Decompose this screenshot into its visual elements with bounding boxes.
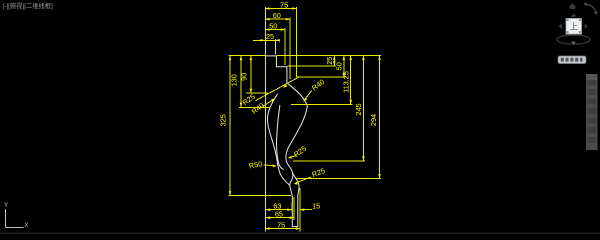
UCS icon bbox=[6, 209, 24, 228]
ext 50R bottom bbox=[297, 76, 346, 78]
25 arrows flipped outside bbox=[260, 39, 265, 42]
ext 294 bottom bbox=[295, 178, 381, 180]
right neck curve R25 upper bbox=[286, 146, 293, 174]
step face 2 bbox=[276, 66, 287, 68]
svg-text:[-][俯视][二维线框]: [-][俯视][二维线框] bbox=[3, 1, 54, 10]
dim line 113.25 bbox=[350, 56, 352, 105]
dim line 50 bbox=[265, 29, 285, 31]
step vertical 1 bbox=[275, 56, 277, 67]
extension line 50 right bbox=[284, 28, 286, 65]
step vertical 2 bbox=[286, 67, 288, 83]
dim line 130 bbox=[240, 56, 242, 108]
svg-text:75: 75 bbox=[280, 0, 288, 9]
extension line left shared bbox=[264, 7, 266, 232]
home icon above viewcube bbox=[570, 3, 576, 9]
svg-text:294: 294 bbox=[369, 114, 378, 126]
viewcube face bbox=[566, 19, 582, 35]
leader arrow R25 left bbox=[283, 84, 288, 88]
svg-text:325: 325 bbox=[219, 114, 228, 126]
dim line 75 top bbox=[265, 8, 297, 10]
dim line 50 right bbox=[343, 56, 345, 78]
inner curve line bbox=[277, 106, 284, 170]
63 arrows bbox=[266, 208, 271, 211]
svg-text:130: 130 bbox=[230, 74, 239, 86]
svg-text:50: 50 bbox=[269, 21, 277, 30]
245 arrows bbox=[362, 56, 365, 61]
75 top arrows bbox=[265, 7, 270, 10]
dim line 245 bbox=[362, 56, 364, 161]
ext 113.25 bottom bbox=[291, 103, 352, 105]
svg-text:50: 50 bbox=[334, 62, 343, 70]
leader R25 left bbox=[256, 77, 300, 101]
svg-text:Y: Y bbox=[4, 202, 8, 209]
funnel left diagonal bbox=[290, 185, 293, 196]
funnel right branch bbox=[293, 174, 299, 197]
stem left edge bbox=[291, 196, 293, 227]
leader arrow R25 right upper bbox=[288, 156, 292, 159]
stem right edge bbox=[297, 196, 299, 227]
leader R25 right lower bbox=[295, 177, 311, 183]
bottom dim 65 bbox=[266, 217, 295, 219]
viewcube triangle left bbox=[559, 23, 562, 29]
ext 90 bottom bbox=[246, 92, 268, 94]
50R arrows bbox=[343, 56, 346, 61]
bottom window edge bbox=[0, 233, 600, 234]
svg-text:15: 15 bbox=[312, 201, 320, 210]
viewcube triangle top bbox=[571, 14, 577, 17]
extension line 60 right bbox=[289, 18, 291, 79]
ext 15/75 right bbox=[299, 188, 301, 232]
90 arrows bbox=[250, 56, 253, 61]
leader arrow R50 bbox=[273, 165, 277, 168]
right taper edge bbox=[289, 106, 307, 146]
top reference ext line right part bbox=[277, 55, 381, 57]
compass ellipse bbox=[557, 35, 590, 44]
60 arrows bbox=[265, 18, 270, 21]
viewcube triangle right bbox=[585, 24, 588, 29]
leader R40 left bbox=[263, 99, 274, 106]
dim line 325 bbox=[229, 56, 231, 196]
compass pointer bbox=[571, 42, 576, 45]
ext 65 right bbox=[293, 197, 295, 220]
leader arrow R25 right lower bbox=[294, 182, 298, 185]
left long S edge bbox=[267, 94, 289, 185]
ext 63 right bbox=[291, 202, 293, 212]
dim line 60 bbox=[265, 18, 290, 20]
ext 245 bottom bbox=[293, 160, 365, 162]
top face of part bbox=[266, 55, 277, 57]
ext 25R bottom bbox=[288, 65, 336, 67]
ext 325 bottom bbox=[228, 195, 291, 197]
right strip panel bbox=[586, 74, 598, 150]
325 arrows bbox=[229, 56, 232, 61]
leader R25 right upper bbox=[289, 156, 296, 158]
svg-text:245: 245 bbox=[354, 103, 363, 115]
dim line 25 bbox=[253, 39, 280, 41]
65 arrows bbox=[266, 216, 271, 219]
svg-text:X: X bbox=[24, 222, 28, 229]
dim line 25 right bbox=[333, 56, 335, 66]
ext 130 bottom bbox=[239, 106, 270, 108]
dim line 294 bbox=[379, 56, 381, 179]
leader R40 right bbox=[304, 90, 312, 100]
nav bar bbox=[558, 56, 586, 64]
bottom dim 75 bbox=[265, 228, 300, 230]
right curve R25 lower into funnel left bbox=[290, 174, 293, 186]
bottom dim 63 bbox=[266, 209, 292, 211]
130 arrows bbox=[240, 56, 243, 61]
294 arrows bbox=[378, 56, 381, 61]
15 arrow flipped bbox=[300, 208, 305, 211]
svg-text:113.25: 113.25 bbox=[341, 71, 350, 93]
extension line 75 right bbox=[296, 7, 298, 77]
extension line 25 right bbox=[274, 39, 276, 55]
dim 15 line bbox=[300, 209, 312, 211]
svg-text:75: 75 bbox=[277, 220, 285, 229]
arc R40 right bbox=[287, 83, 307, 107]
113.25 arrows bbox=[349, 56, 352, 61]
25R arrows bbox=[333, 56, 336, 61]
svg-text:25: 25 bbox=[266, 32, 274, 41]
50 arrows bbox=[265, 28, 270, 31]
stem bottom face bbox=[292, 226, 298, 228]
dim line 90 bbox=[250, 56, 252, 94]
svg-text:90: 90 bbox=[240, 73, 249, 81]
corner rotate arc bbox=[585, 5, 597, 14]
svg-text:上: 上 bbox=[569, 22, 578, 32]
leader arrow R40 left bbox=[271, 98, 275, 102]
leader R50 bbox=[264, 165, 276, 166]
svg-text:25: 25 bbox=[325, 57, 334, 65]
svg-text:65: 65 bbox=[275, 210, 283, 219]
leader arrow R40 right bbox=[303, 98, 307, 102]
75b arrows bbox=[265, 227, 270, 230]
top reference ext line left part bbox=[228, 55, 265, 57]
svg-text:60: 60 bbox=[273, 11, 281, 20]
